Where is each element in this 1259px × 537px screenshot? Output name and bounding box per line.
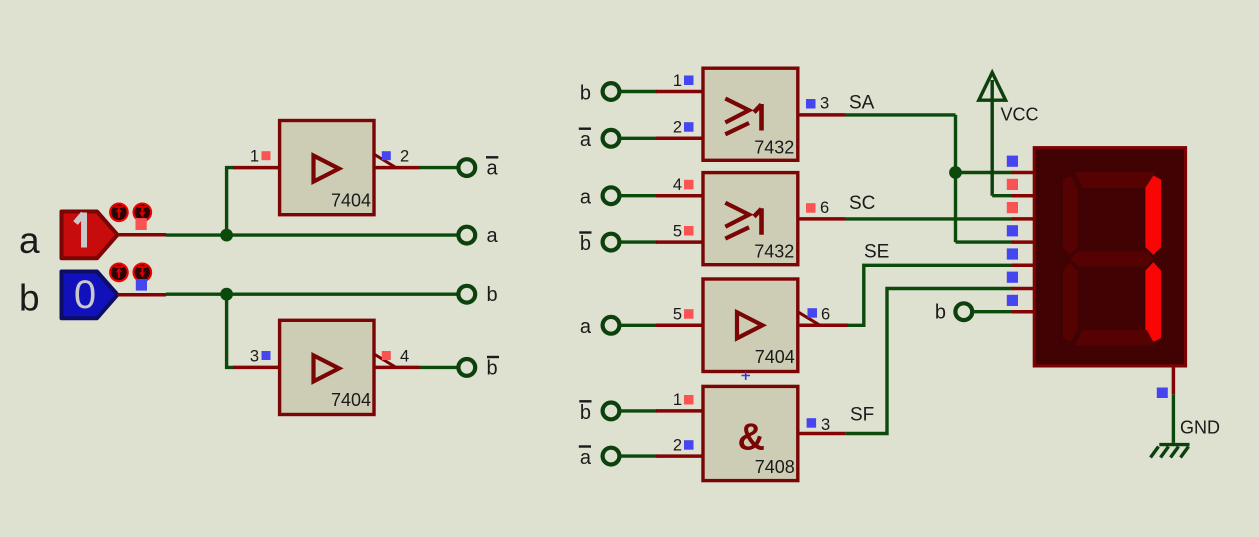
- wire SA vertical: [954, 115, 957, 242]
- svg-text:a: a: [19, 220, 40, 261]
- svg-text:7404: 7404: [755, 347, 795, 367]
- svg-text:7404: 7404: [331, 191, 371, 211]
- VCC symbol: [979, 73, 1006, 196]
- node junction a: [220, 229, 233, 242]
- wire a-bar to U6 pin2: [620, 454, 657, 457]
- svg-text:a: a: [487, 158, 499, 180]
- pin stub U2 input: [233, 366, 280, 370]
- pin stub display pin2: [1012, 194, 1036, 198]
- wire branch b down: [227, 294, 234, 367]
- svg-text:2: 2: [400, 148, 409, 166]
- pin stub U5 pin5: [656, 324, 703, 328]
- pin 6 square (blue): [808, 308, 818, 318]
- terminal a-bar (U3 pin2 input): [603, 130, 620, 147]
- svg-text:SC: SC: [849, 193, 875, 214]
- svg-text:b: b: [580, 82, 591, 104]
- pin stub input A: [118, 233, 167, 237]
- pin3 square (red): [1007, 202, 1018, 213]
- common pin square (blue): [1157, 388, 1168, 399]
- pin stub U1 input: [233, 166, 280, 170]
- pin 6 square (red): [806, 203, 816, 213]
- terminal a (U4 pin4 input): [603, 187, 620, 204]
- segment A (off): [1075, 172, 1155, 187]
- wire branch a up: [227, 168, 234, 236]
- svg-text:0: 0: [74, 273, 96, 317]
- svg-text:1: 1: [250, 148, 259, 166]
- svg-text:3: 3: [250, 347, 259, 365]
- terminal a-bar (U6 pin2 input): [603, 448, 620, 465]
- pin 3 state square (blue): [262, 351, 271, 360]
- svg-text:a: a: [580, 447, 592, 469]
- pin 2 square (blue): [684, 122, 694, 132]
- svg-text:7408: 7408: [755, 457, 795, 477]
- label a-bar terminal: [486, 157, 499, 179]
- svg-text:b: b: [580, 402, 591, 424]
- pin stub U5 output: [798, 324, 848, 328]
- ground symbol: [1151, 445, 1190, 458]
- svg-text:3: 3: [820, 95, 829, 113]
- pin stub U4 output: [798, 217, 845, 221]
- U2 output diagonal: [374, 354, 396, 367]
- svg-text:VCC: VCC: [1001, 105, 1039, 125]
- pin stub input B: [118, 293, 167, 297]
- svg-text:a: a: [580, 316, 592, 338]
- U1 output diagonal: [374, 154, 396, 167]
- terminal b-bar (U6 pin1 input): [603, 403, 620, 420]
- svg-text:7404: 7404: [331, 390, 371, 410]
- segment B (on): [1145, 176, 1161, 255]
- segment F (off): [1063, 176, 1077, 255]
- wire net b horizontal: [166, 293, 460, 296]
- svg-text:1: 1: [673, 72, 682, 90]
- logic input A (logicstate = 1): [62, 212, 118, 259]
- segment C (on): [1145, 262, 1161, 342]
- pin 4 state square (red): [382, 351, 391, 360]
- pin2 square (red): [1007, 179, 1018, 190]
- terminal a-bar (left): [458, 159, 475, 176]
- wire b to display pin7: [972, 310, 1013, 313]
- svg-text:4: 4: [673, 176, 682, 194]
- wire net a horizontal: [166, 233, 460, 236]
- pin 4 square (red): [684, 180, 694, 190]
- svg-text:3: 3: [821, 416, 830, 434]
- pin6 square (blue): [1007, 272, 1018, 283]
- pin7 square (blue): [1007, 295, 1018, 306]
- OR gate U4 7432: [703, 173, 798, 265]
- terminal b (display pin7): [955, 303, 972, 320]
- svg-text:5: 5: [673, 222, 682, 240]
- toggle button down (input A): [134, 204, 152, 222]
- pin stub U4 pin5: [656, 240, 703, 244]
- wire SE from U5 output: [848, 265, 1013, 325]
- pin5 square (blue): [1007, 248, 1018, 259]
- wire U2 output to terminal: [420, 366, 461, 369]
- wire SA to display pin4: [956, 240, 1014, 243]
- pin 2 state square (blue): [382, 151, 391, 160]
- terminal b-bar (left): [458, 359, 475, 376]
- segment G (off): [1070, 251, 1154, 266]
- state square input A (red = 1): [136, 218, 147, 230]
- svg-text:b: b: [487, 284, 498, 306]
- OR gate U3 7432: [703, 68, 798, 160]
- svg-text:SA: SA: [849, 93, 875, 114]
- svg-text:a: a: [580, 129, 592, 151]
- wire b-bar to U4 pin5: [620, 240, 657, 243]
- toggle button down (input B): [134, 264, 152, 282]
- node SA junction: [949, 166, 962, 179]
- U5 output diagonal: [798, 312, 820, 326]
- 7-segment display body: [1034, 148, 1185, 366]
- pin 3 square (blue): [807, 418, 817, 428]
- pin stub display pin3: [1012, 217, 1036, 221]
- wire b to U3 pin1: [620, 90, 657, 93]
- node junction b: [220, 288, 233, 301]
- svg-text:GND: GND: [1180, 418, 1220, 438]
- terminal a (left): [458, 227, 475, 244]
- wire SA from U3 output: [845, 113, 956, 116]
- pin stub U2 output: [374, 366, 420, 370]
- svg-text:7432: 7432: [754, 137, 794, 157]
- toggle button up (input B): [110, 264, 128, 282]
- pin 5 square (red): [684, 226, 694, 236]
- svg-text:6: 6: [820, 199, 829, 217]
- pin 1 square (red): [684, 395, 694, 405]
- svg-text:1: 1: [673, 391, 682, 409]
- pin stub U3 output: [798, 113, 845, 117]
- wire a-bar to U3 pin2: [620, 137, 657, 140]
- pin1 square (blue): [1007, 156, 1018, 167]
- segment E (off): [1063, 263, 1077, 342]
- svg-text:2: 2: [673, 436, 682, 454]
- svg-text:a: a: [580, 187, 592, 209]
- pin stub display pin7: [1012, 310, 1036, 314]
- pin stub U3 pin1: [656, 90, 703, 94]
- svg-text:b: b: [580, 233, 591, 255]
- pin stub display pin1: [1012, 171, 1036, 175]
- svg-text:6: 6: [821, 306, 830, 324]
- terminal b (U3 pin1 input): [603, 83, 620, 100]
- inverter U1 7404 (top left): [280, 121, 374, 215]
- segment D (off): [1075, 330, 1155, 345]
- inverter U2 7404 (bottom left): [280, 320, 374, 414]
- state square input B (blue = 0): [136, 279, 147, 291]
- inverter U5 7404: [703, 279, 798, 372]
- wire display common to ground: [1172, 394, 1175, 443]
- svg-text:SF: SF: [850, 405, 874, 426]
- logic input B (logicstate = 0): [62, 272, 118, 319]
- wire VCC to display pin2: [992, 194, 1013, 197]
- pin stub U6 output: [798, 432, 846, 436]
- wire a to U4 pin4: [620, 194, 657, 197]
- origin marker U5 (blue cross): [742, 372, 751, 381]
- pin stub U1 output: [374, 166, 420, 170]
- wire a to U5 pin5: [620, 324, 657, 327]
- toggle button up (input A): [110, 204, 128, 222]
- pin stub U4 pin4: [656, 194, 703, 198]
- svg-text:b: b: [935, 302, 946, 324]
- pin stub display pin6: [1012, 287, 1036, 291]
- pin 1 state square (red): [262, 151, 271, 160]
- AND gate U6 7408: [703, 386, 798, 480]
- terminal a (U5 pin5 input): [603, 317, 620, 334]
- pin stub U6 pin2: [656, 454, 703, 458]
- pin stub display pin5: [1012, 264, 1036, 268]
- pin stub display bottom (common): [1172, 366, 1176, 395]
- svg-text:5: 5: [673, 306, 682, 324]
- wire SF from U6 output: [846, 289, 1013, 434]
- wire b-bar to U6 pin1: [620, 409, 657, 412]
- svg-text:SE: SE: [864, 242, 889, 263]
- pin4 square (blue): [1007, 225, 1018, 236]
- svg-text:&: &: [738, 417, 765, 459]
- pin 1 square (blue): [684, 76, 694, 86]
- label b-bar terminal: [487, 357, 500, 379]
- wire SA to display pin1: [956, 171, 1014, 174]
- pin 2 square (blue): [684, 440, 694, 450]
- svg-text:7432: 7432: [754, 242, 794, 262]
- svg-text:2: 2: [673, 119, 682, 137]
- pin stub U3 pin2: [656, 137, 703, 141]
- pin stub display pin4: [1012, 240, 1036, 244]
- pin stub U6 pin1: [656, 409, 703, 413]
- terminal b (left): [458, 286, 475, 303]
- pin 5 square (red): [684, 309, 694, 319]
- svg-text:b: b: [19, 278, 40, 319]
- svg-text:b: b: [487, 357, 498, 379]
- wire SC from U4 output to display pin3: [845, 217, 1013, 220]
- pin 3 square (blue): [806, 99, 816, 109]
- svg-text:a: a: [487, 225, 499, 247]
- svg-text:4: 4: [400, 347, 409, 365]
- terminal b-bar (U4 pin5 input): [603, 234, 620, 251]
- wire U1 output to terminal: [420, 166, 461, 169]
